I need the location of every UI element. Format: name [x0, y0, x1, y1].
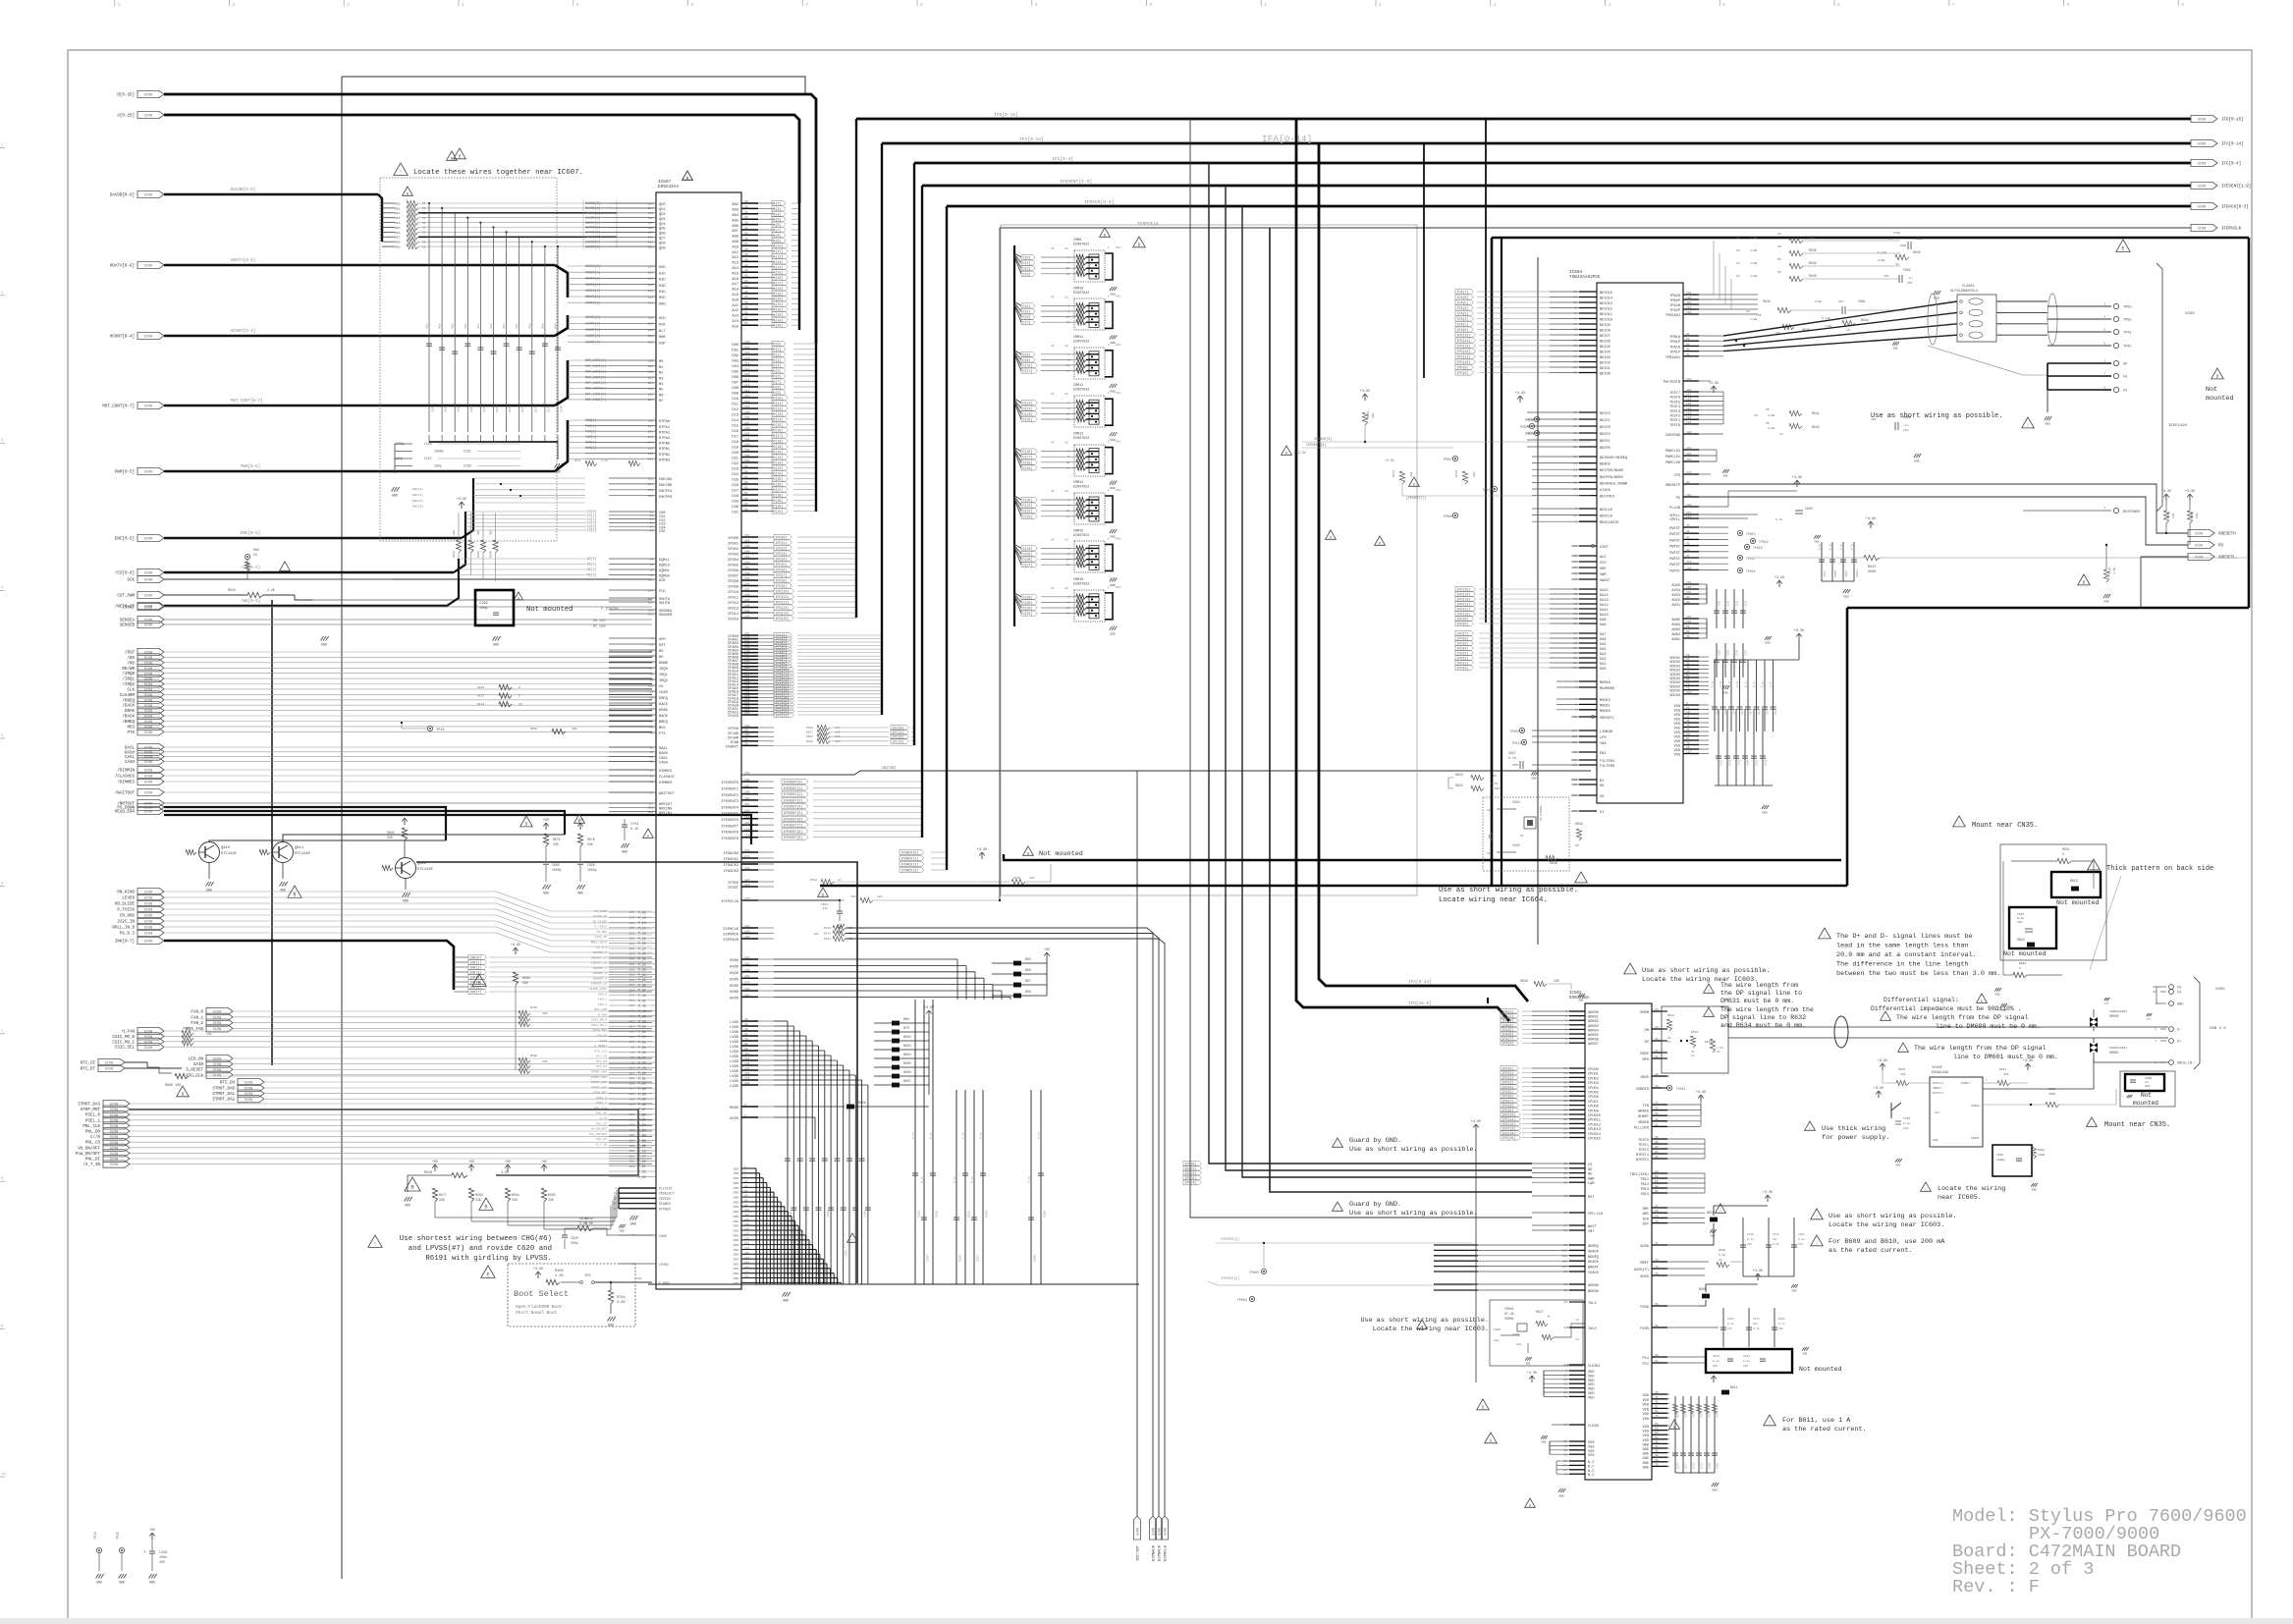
svg-text:SCON: SCON [2195, 545, 2204, 549]
svg-text:49: 49 [649, 511, 653, 514]
svg-text:GND: GND [1803, 1353, 1808, 1356]
svg-text:9: 9 [1575, 508, 1577, 511]
svg-text:R0: R0 [1600, 785, 1604, 788]
IC604 left pins DA15-DA8 [1579, 588, 1597, 590]
testpoint TP605 [1261, 1269, 1266, 1273]
svg-text:Not mounted: Not mounted [1039, 850, 1083, 858]
svg-text:100p: 100p [434, 464, 442, 468]
wire group RAS/CAS [137, 743, 164, 750]
ground CRM9 [1110, 287, 1113, 291]
svg-text:52: 52 [1686, 675, 1690, 677]
svg-text:TP25: TP25 [117, 1532, 121, 1540]
svg-text:D01: D01 [732, 350, 738, 353]
svg-text:33K: 33K [2196, 513, 2199, 518]
svg-text:1: 1 [118, 2, 121, 8]
svg-text:102: 102 [1686, 292, 1692, 295]
svg-text:VSS: VSS [1674, 710, 1680, 714]
svg-text:GND: GND [1914, 460, 1919, 463]
svg-text:R53?: R53? [574, 460, 581, 462]
IC604 left pin XO XI with crystal D1 [1579, 794, 1597, 796]
svg-text:VSS: VSS [734, 1234, 739, 1237]
svg-text:A[24]: A[24] [774, 318, 784, 322]
svg-text:A23: A23 [732, 315, 738, 319]
svg-text:C668: C668 [2145, 1077, 2152, 1080]
svg-text:33K: 33K [553, 842, 559, 846]
svg-text:283: 283 [648, 811, 654, 814]
notes D+/D- differential [1819, 928, 1831, 939]
svg-text:280: 280 [629, 932, 635, 935]
svg-text:47: 47 [1051, 393, 1055, 396]
svg-text:XRESETL: XRESETL [2218, 557, 2236, 561]
svg-text:33K: 33K [453, 530, 456, 535]
svg-text:100p: 100p [479, 607, 488, 611]
svg-text:Not: Not [2141, 1092, 2152, 1099]
svg-text:line to DM600 must be 0 mm.: line to DM600 must be 0 mm. [1936, 1023, 2041, 1030]
svg-text:QD7: QD7 [659, 238, 666, 242]
svg-text:12: 12 [1065, 393, 1068, 396]
svg-text:0.1u: 0.1u [1728, 680, 1731, 687]
svg-text:IFD05: IFD05 [728, 565, 738, 568]
svg-text:A[3]: A[3] [774, 207, 782, 211]
svg-text:42: 42 [1655, 1454, 1659, 1457]
svg-text:LVDD: LVDD [730, 1056, 739, 1059]
svg-text:/WE[3]: /WE[3] [585, 573, 597, 577]
ground AVDD caps [1791, 1284, 1793, 1288]
svg-text:88: 88 [1655, 1141, 1659, 1144]
svg-text:SCON: SCON [144, 538, 153, 542]
svg-text:30: 30 [1563, 1110, 1567, 1112]
svg-text:33K: 33K [1410, 471, 1413, 477]
svg-text:3: 3 [1575, 704, 1577, 707]
svg-text:43: 43 [1686, 725, 1690, 728]
svg-text:Q610: Q610 [221, 846, 231, 850]
svg-text:1: 1 [1565, 1370, 1567, 1373]
wire long vertical feeder x=348 [341, 77, 343, 1579]
svg-text:128: 128 [744, 925, 750, 928]
svg-text:DM601: DM601 [2109, 1051, 2119, 1055]
svg-text:PLLTEST: PLLTEST [659, 1187, 672, 1191]
svg-text:C704: C704 [630, 823, 638, 827]
svg-text:WAITOUT: WAITOUT [659, 792, 675, 796]
svg-text:145: 145 [744, 599, 750, 602]
svg-text:SDT: SDT [1643, 1223, 1650, 1227]
svg-text:SCON: SCON [144, 336, 153, 340]
svg-text:GCK: GCK [127, 579, 135, 583]
svg-text:PTS: PTS [659, 732, 666, 736]
svg-text:PWTST: PWTST [1669, 539, 1681, 543]
svg-text:IFD07: IFD07 [728, 575, 738, 579]
svg-text:P_A5: P_A5 [638, 1098, 646, 1102]
svg-text:C174: C174 [534, 406, 537, 412]
svg-text:+5V: +5V [541, 1161, 548, 1164]
svg-text:LVDD: LVDD [730, 1060, 739, 1064]
svg-text:7: 7 [2103, 373, 2105, 376]
svg-text:ECPHACK: ECPHACK [724, 934, 739, 938]
svg-text:IFD[5]: IFD[5] [776, 563, 788, 567]
svg-text:31: 31 [1686, 530, 1690, 533]
svg-text:A[25]: A[25] [774, 324, 784, 328]
svg-text:P_B4: P_B4 [638, 1134, 646, 1138]
svg-text:45: 45 [1655, 1401, 1659, 1404]
svg-text:C166: C166 [432, 406, 435, 412]
svg-text:MUXMODE: MUXMODE [1600, 687, 1614, 691]
svg-text:35: 35 [1563, 1379, 1567, 1381]
svg-text:47p: 47p [490, 323, 493, 329]
svg-text:R637: R637 [1809, 236, 1817, 240]
svg-text:29: 29 [744, 200, 748, 203]
svg-text:Mount near CN35.: Mount near CN35. [2104, 1121, 2170, 1129]
svg-text:D[20]: D[20] [1023, 499, 1033, 503]
svg-text:273: 273 [744, 982, 750, 985]
svg-text:+3.3V: +3.3V [1753, 1270, 1764, 1273]
svg-text:284: 284 [648, 601, 654, 604]
svg-text:IFD[14]: IFD[14] [1457, 339, 1471, 343]
svg-text:USBDIR: USBDIR [1636, 1088, 1650, 1092]
svg-text:MOT_CONT[5]: MOT_CONT[5] [585, 387, 606, 391]
svg-text:IFD02: IFD02 [728, 548, 738, 552]
svg-text:12p: 12p [1516, 1343, 1522, 1346]
svg-text:CPUD4: CPUD4 [1588, 1087, 1599, 1091]
svg-text:286: 286 [629, 1104, 635, 1107]
svg-text:PWM[1]: PWM[1] [585, 424, 597, 428]
svg-text:+3.3V: +3.3V [511, 944, 521, 947]
svg-text:R640: R640 [1809, 274, 1817, 278]
svg-text:TPA2P: TPA2P [1669, 309, 1680, 313]
svg-text:R536: R536 [490, 551, 493, 558]
svg-text:22: 22 [649, 769, 653, 772]
svg-text:+5V: +5V [432, 1161, 439, 1164]
svg-text:VSS: VSS [1674, 740, 1680, 744]
svg-text:PC1: PC1 [1643, 1357, 1649, 1361]
svg-text:RREF: RREF [1640, 1262, 1649, 1266]
svg-text:WKREG: WKREG [1638, 1110, 1649, 1114]
testpoint TP45 [427, 726, 432, 731]
wire VBUS_IN [2094, 1058, 2168, 1062]
svg-text:B70: B70 [903, 1026, 909, 1030]
svg-text:IFEVENT[1-9]: IFEVENT[1-9] [2221, 185, 2251, 189]
svg-text:RD: RD [659, 656, 664, 660]
svg-text:70: 70 [1655, 1272, 1659, 1275]
svg-text:99: 99 [744, 730, 748, 732]
svg-text:LWR: LWR [1588, 1182, 1595, 1186]
svg-text:LVDD: LVDD [730, 1031, 739, 1035]
ground AGN [1722, 685, 1725, 689]
svg-text:IFD[8]: IFD[8] [1457, 623, 1469, 626]
ground PNRCLS [1722, 469, 1724, 473]
svg-text:D[21]: D[21] [1023, 504, 1033, 508]
svg-text:6.34K: 6.34K [1491, 787, 1500, 790]
note use short wiring IC664 [1575, 872, 1588, 883]
svg-text:C171: C171 [496, 406, 499, 412]
svg-text:IFA[0]: IFA[0] [1457, 328, 1469, 332]
svg-text:LVDD: LVDD [730, 1051, 739, 1055]
svg-text:97: 97 [744, 476, 748, 479]
svg-text:249: 249 [629, 963, 635, 966]
svg-text:0.1u: 0.1u [1508, 756, 1516, 760]
svg-text:TP605: TP605 [1519, 425, 1529, 429]
svg-text:near IC605.: near IC605. [1938, 1194, 1982, 1202]
svg-text:0.1u: 0.1u [1753, 680, 1756, 687]
svg-text:R6191 with girdling by LPVSS.: R6191 with girdling by LPVSS. [425, 1255, 552, 1263]
svg-text:EN2: EN2 [1600, 752, 1606, 756]
svg-text:M6: M6 [659, 394, 663, 398]
svg-text:C665: C665 [1727, 1318, 1734, 1321]
svg-text:277: 277 [629, 1041, 635, 1044]
svg-text:85: 85 [1573, 716, 1577, 719]
svg-text:12: 12 [1065, 247, 1068, 250]
svg-text:201: 201 [648, 242, 654, 244]
svg-text:XWR: XWR [1600, 573, 1607, 577]
svg-text:100: 100 [835, 731, 841, 734]
node ECPHCLK bottom connector [1161, 1516, 1168, 1540]
svg-text:C173: C173 [521, 406, 524, 412]
ground PWTST caps [1843, 589, 1846, 593]
IC607 left pins NMI [609, 802, 656, 804]
svg-text:214: 214 [648, 284, 654, 287]
svg-text:R689 100: R689 100 [165, 1084, 181, 1088]
svg-text:47p: 47p [439, 323, 442, 329]
svg-text:R104: R104 [477, 703, 484, 706]
wire IFD thick bus to IC603 [1296, 119, 1509, 1021]
svg-text:118: 118 [1686, 561, 1692, 564]
svg-text:P_37: P_37 [638, 989, 646, 993]
svg-text:TFB: TFB [1643, 1105, 1650, 1109]
svg-text:123: 123 [1686, 412, 1692, 415]
svg-text:RTPB0: RTPB0 [659, 443, 670, 447]
svg-text:QD9: QD9 [659, 246, 666, 250]
svg-text:RTC_CE: RTC_CE [81, 1062, 96, 1066]
svg-text:IFEVENT[6]: IFEVENT[6] [784, 817, 803, 821]
svg-text:XRESETL: XRESETL [1600, 717, 1614, 721]
svg-text:0.1u: 0.1u [1720, 680, 1722, 687]
svg-text:PVSS: PVSS [1640, 1327, 1649, 1331]
svg-text:IFD09: IFD09 [728, 586, 738, 590]
ground in boot select [608, 1317, 611, 1322]
svg-text:295: 295 [629, 1134, 635, 1137]
svg-text:FAN_0: FAN_0 [598, 993, 607, 996]
svg-text:0.1u: 0.1u [971, 1176, 974, 1183]
svg-text:R641: R641 [1812, 411, 1820, 415]
svg-text:R673: R673 [1700, 1411, 1703, 1418]
svg-text:P_31: P_31 [638, 957, 646, 961]
svg-text:92: 92 [1563, 1181, 1567, 1184]
svg-text:274: 274 [629, 995, 635, 998]
svg-text:/WE[1]: /WE[1] [585, 563, 597, 567]
svg-text:PNRCLS0: PNRCLS0 [1665, 461, 1680, 465]
svg-text:HVDD: HVDD [730, 959, 739, 963]
wire vertical drop 2 to IC603 [1226, 186, 1532, 1170]
svg-text:R629: R629 [1575, 822, 1583, 826]
svg-text:125: 125 [1686, 403, 1692, 406]
svg-text:47p: 47p [1116, 344, 1121, 347]
svg-text:BDIO4: BDIO4 [1600, 352, 1611, 355]
svg-text:VSS: VSS [1674, 714, 1680, 718]
svg-text:+3.3V: +3.3V [457, 498, 467, 502]
transistor Q612 DTC144E [396, 858, 416, 879]
svg-text:C161: C161 [464, 450, 471, 454]
svg-text:GND: GND [403, 899, 409, 903]
svg-text:H2D: H2D [659, 279, 666, 283]
svg-text:52: 52 [1655, 1432, 1659, 1435]
svg-text:121: 121 [1686, 421, 1692, 424]
svg-text:35: 35 [649, 791, 653, 794]
IC607 left pins DACOD0-9 [582, 199, 584, 248]
svg-text:45: 45 [744, 285, 748, 288]
svg-text:21: 21 [649, 643, 653, 646]
svg-text:122: 122 [744, 341, 750, 344]
svg-text:60: 60 [1563, 1445, 1567, 1448]
IC607 right pins IFA00-23 with fan to IFA bus [741, 634, 758, 636]
svg-text:100: 100 [542, 1012, 548, 1015]
svg-text:A12: A12 [732, 256, 738, 260]
svg-text:10: 10 [1563, 1163, 1567, 1165]
svg-text:17: 17 [1655, 1205, 1659, 1208]
svg-text:3.9K: 3.9K [617, 1301, 626, 1305]
svg-text:C222: C222 [977, 1255, 980, 1262]
svg-text:IFA[7]: IFA[7] [1457, 291, 1469, 295]
ground CRM16 [1110, 626, 1113, 630]
svg-text:126: 126 [1686, 398, 1692, 401]
svg-text:/X_T_IN: /X_T_IN [82, 1163, 100, 1167]
wire group CPU control signals [137, 648, 164, 655]
ground AVD [1765, 636, 1767, 640]
svg-text:SCON: SCON [213, 1074, 222, 1078]
svg-text:69: 69 [1655, 1136, 1659, 1139]
svg-text:A10: A10 [732, 245, 738, 249]
ground R648 group [1994, 988, 1996, 992]
svg-text:28: 28 [649, 649, 653, 652]
svg-text:1/8W: 1/8W [1750, 261, 1757, 265]
svg-text:43: 43 [1575, 1319, 1579, 1322]
svg-text:+3.3V: +3.3V [1527, 1372, 1538, 1376]
svg-text:R400: R400 [555, 1270, 564, 1273]
svg-text:IFDACK[0-3]: IFDACK[0-3] [1084, 199, 1114, 205]
wire group panel/motor controls [103, 1100, 130, 1107]
svg-text:TPA2N: TPA2N [1669, 304, 1680, 308]
svg-text:STEP_MOT: STEP_MOT [593, 1092, 608, 1095]
svg-text:C685: C685 [552, 863, 560, 867]
IC604 left pins mode [1579, 680, 1597, 682]
ground CLK30 [1541, 1435, 1543, 1439]
svg-text:TP610: TP610 [1524, 418, 1534, 422]
svg-text:R68: R68 [395, 242, 401, 244]
svg-text:C176: C176 [561, 406, 564, 412]
svg-text:CKSELECT: CKSELECT [659, 1192, 674, 1196]
svg-text:HCONT[1]: HCONT[1] [585, 322, 600, 326]
svg-text:19: 19 [1573, 446, 1577, 449]
svg-text:IRQ0: IRQ0 [659, 668, 668, 672]
svg-text:GND: GND [392, 494, 398, 498]
svg-text:D05: D05 [732, 371, 738, 375]
svg-text:HEAD_ERR: HEAD_ERR [115, 811, 136, 815]
wire bus IFA[0-14] to right connector [882, 142, 2191, 145]
svg-text:33: 33 [1686, 662, 1690, 665]
svg-text:RTPA3: RTPA3 [659, 437, 670, 441]
svg-text:37: 37 [1573, 372, 1577, 375]
svg-text:A07: A07 [732, 230, 738, 234]
svg-text:R583: R583 [475, 1193, 483, 1197]
svg-text:32: 32 [744, 1023, 748, 1026]
power +3.3V VDD3V [1798, 633, 1800, 640]
svg-text:47p: 47p [503, 323, 506, 329]
svg-text:36: 36 [744, 238, 748, 241]
svg-text:FAN_1: FAN_1 [598, 999, 607, 1001]
svg-text:IFD[5]: IFD[5] [1457, 642, 1469, 646]
svg-text:49: 49 [744, 306, 748, 309]
svg-text:VSS: VSS [734, 1268, 739, 1271]
svg-text:E09A42AA: E09A42AA [658, 185, 679, 189]
svg-text:BDIO11: BDIO11 [1600, 313, 1612, 317]
svg-text:47: 47 [1051, 247, 1055, 250]
svg-text:94: 94 [1686, 596, 1690, 599]
svg-text:D14: D14 [732, 419, 738, 423]
svg-text:9: 9 [1565, 1010, 1567, 1013]
svg-text:VSS: VSS [734, 1177, 739, 1180]
svg-text:TEST3: TEST3 [1669, 410, 1680, 414]
svg-text:HDATA[3]: HDATA[3] [585, 283, 600, 287]
svg-text:R638: R638 [1809, 248, 1817, 252]
svg-text:28: 28 [1563, 1118, 1567, 1121]
svg-text:DA14: DA14 [1600, 594, 1609, 598]
svg-text:MODE0: MODE0 [1600, 710, 1611, 714]
svg-text:147: 147 [744, 588, 750, 591]
svg-text:MD3: MD3 [127, 726, 135, 730]
svg-text:79: 79 [1686, 687, 1690, 690]
svg-text:R585: R585 [548, 1193, 556, 1197]
note locate wires near IC607 [394, 163, 408, 175]
svg-text:SCON: SCON [144, 1047, 153, 1051]
svg-text:IFD[3]: IFD[3] [1457, 652, 1469, 656]
svg-text:1: 1 [1575, 709, 1577, 712]
svg-text:IFSSD: IFSSD [728, 882, 739, 886]
ground CRM11 [1110, 384, 1113, 388]
svg-text:P_A4: P_A4 [638, 1092, 646, 1096]
svg-text:89: 89 [1686, 343, 1690, 346]
svg-text:IFD00: IFD00 [728, 537, 738, 541]
svg-text:The wire length from: The wire length from [1720, 982, 1798, 989]
svg-text:CR_ORG: CR_ORG [120, 915, 136, 919]
svg-text:159: 159 [744, 835, 750, 838]
svg-text:ENCPFB: ENCPFB [659, 496, 673, 500]
svg-text:288: 288 [629, 1109, 635, 1111]
svg-text:100: 100 [744, 460, 750, 462]
svg-text:VBUS: VBUS [1640, 1076, 1649, 1080]
svg-text:160: 160 [744, 828, 750, 831]
svg-text:SCON: SCON [245, 1082, 253, 1086]
svg-text:HCK: HCK [659, 324, 666, 328]
svg-text:RTPA1: RTPA1 [659, 426, 671, 430]
svg-text:33K: 33K [522, 981, 528, 985]
svg-text:50: 50 [1655, 1428, 1659, 1431]
svg-text:R630: R630 [1719, 1249, 1725, 1252]
svg-text:IFD[12]: IFD[12] [1457, 603, 1471, 607]
svg-text:C158: C158 [159, 1551, 167, 1555]
svg-text:62: 62 [1655, 1185, 1659, 1188]
svg-text:50: 50 [1573, 301, 1577, 304]
svg-text:25V: 25V [1907, 282, 1913, 285]
IC603 left pin TALO [1569, 1326, 1585, 1328]
svg-text:0: 0 [519, 686, 520, 689]
svg-text:18: 18 [630, 1056, 634, 1059]
svg-text:85: 85 [1655, 1156, 1659, 1159]
svg-text:52: 52 [744, 322, 748, 325]
IC604 right pins PWTST with testpoints TP615-TP618 [1683, 526, 1699, 528]
wire IFEVENT bus vertical [921, 186, 923, 838]
ground PVSS [1802, 1347, 1804, 1351]
svg-text:D[16]: D[16] [774, 429, 784, 433]
svg-text:PSEL_0: PSEL_0 [596, 1097, 607, 1100]
svg-text:D17: D17 [732, 436, 738, 440]
